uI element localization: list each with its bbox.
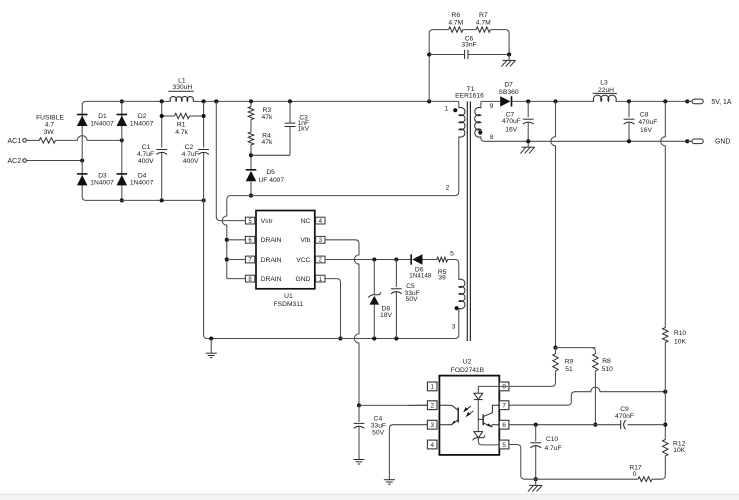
svg-text:AC1: AC1	[7, 138, 21, 145]
fusible resistor FUSIBLE 4.7 3W	[36, 114, 64, 143]
svg-text:8: 8	[502, 384, 506, 391]
svg-text:51: 51	[565, 366, 573, 373]
inductor L1 330uH	[168, 77, 193, 101]
svg-text:16V: 16V	[505, 127, 517, 134]
svg-text:4.7uF: 4.7uF	[137, 151, 154, 158]
svg-text:2: 2	[430, 403, 434, 410]
svg-text:AC2: AC2	[7, 158, 21, 165]
svg-text:400V: 400V	[138, 158, 154, 165]
svg-text:1N4007: 1N4007	[90, 121, 114, 128]
diode D5 UF 4007	[246, 169, 285, 198]
wire AC2	[26, 158, 84, 162]
svg-text:2: 2	[446, 184, 450, 191]
svg-text:U1: U1	[284, 293, 293, 300]
svg-text:D2: D2	[138, 113, 147, 120]
U2 pin 1	[427, 382, 437, 391]
wire U2 pin7 to R10/R12 node, hop over R8	[509, 387, 667, 405]
svg-text:3W: 3W	[44, 129, 55, 136]
svg-text:39: 39	[438, 275, 446, 282]
svg-text:VCC: VCC	[296, 257, 310, 264]
svg-text:1kV: 1kV	[298, 126, 310, 133]
capacitor C9 470nF	[615, 406, 634, 429]
svg-text:C8: C8	[640, 111, 649, 118]
svg-text:4.7k: 4.7k	[175, 129, 188, 136]
svg-text:470uF: 470uF	[638, 119, 657, 126]
svg-text:DRAIN: DRAIN	[261, 237, 282, 244]
svg-text:C9: C9	[620, 406, 629, 413]
resistor R3 47k	[248, 107, 273, 121]
svg-text:9: 9	[490, 103, 494, 110]
svg-text:16V: 16V	[640, 127, 652, 134]
chassis ground on bottom return	[528, 479, 542, 491]
zener diode D8 18V	[368, 260, 392, 339]
U1 pin 7 DRAIN	[245, 256, 281, 264]
op-amp U2 FOD2741B body	[439, 358, 499, 455]
svg-text:5: 5	[502, 442, 506, 449]
capacitor C5 33uF 50V	[391, 260, 420, 339]
svg-text:R9: R9	[565, 358, 574, 365]
svg-text:6: 6	[502, 422, 506, 429]
wire R12 bottom to R17	[652, 456, 665, 479]
chassis ground under C7	[520, 141, 534, 153]
U1 pin 6 DRAIN	[245, 236, 281, 244]
U2 pin 7	[499, 401, 509, 410]
capacitor C3 1nF 1kV	[251, 101, 310, 155]
svg-text:D3: D3	[98, 172, 107, 179]
svg-text:10K: 10K	[674, 339, 686, 346]
svg-text:GND: GND	[296, 276, 311, 283]
resistor R6 4.7M	[433, 12, 464, 32]
wire Vfb node to U2 pin2	[359, 404, 427, 406]
T1 auxiliary winding pin5-pin3	[450, 251, 465, 339]
capacitor C10 4.7uF	[530, 425, 561, 482]
svg-text:4.7uF: 4.7uF	[182, 151, 199, 158]
svg-text:8: 8	[490, 134, 494, 141]
resistor R1 4.7k	[160, 113, 206, 136]
wire main top rail with L1 inline	[86, 99, 459, 103]
wire drain column with hop over Vstr wire	[222, 196, 230, 279]
T1 secondary winding pin9-pin8	[475, 101, 494, 141]
U2 internal transistor	[478, 405, 499, 427]
wire primary ground rail	[207, 336, 455, 340]
U2 internal LED diode	[474, 386, 508, 431]
resistor R9 51	[553, 348, 574, 374]
ground symbol on primary rail	[206, 339, 217, 358]
svg-text:1: 1	[430, 384, 434, 391]
svg-text:EER1616: EER1616	[455, 93, 484, 100]
svg-text:1N4148: 1N4148	[409, 273, 432, 280]
svg-text:DRAIN: DRAIN	[261, 257, 282, 264]
ground under U2 pin3 wire	[384, 480, 395, 485]
svg-text:C2: C2	[185, 144, 194, 151]
svg-text:5V, 1A: 5V, 1A	[711, 99, 731, 106]
resistor R7 4.7M	[463, 12, 505, 32]
U1 pin 5 Vstr	[245, 217, 273, 225]
diode D2 1N4007	[117, 113, 154, 127]
svg-text:1N4007: 1N4007	[90, 180, 114, 187]
resistor R4 47k	[248, 132, 273, 146]
svg-text:R7: R7	[479, 12, 488, 19]
svg-text:U2: U2	[463, 358, 472, 365]
wire VCC pin2 net	[325, 257, 411, 261]
svg-text:4.7M: 4.7M	[476, 20, 491, 27]
wire bridge right column	[120, 99, 124, 202]
svg-text:FUSIBLE: FUSIBLE	[36, 114, 64, 121]
svg-text:400V: 400V	[183, 158, 199, 165]
U1 pin 8 DRAIN	[245, 275, 281, 283]
wire C2 column down to primary ground rail	[204, 200, 208, 338]
svg-text:470nF: 470nF	[615, 413, 634, 420]
svg-text:7: 7	[502, 403, 506, 410]
svg-text:4.7uF: 4.7uF	[544, 445, 561, 452]
wire U2 pin3 to ground	[389, 425, 427, 480]
svg-text:R1: R1	[177, 121, 186, 128]
svg-text:C10: C10	[546, 436, 559, 443]
svg-text:DRAIN: DRAIN	[261, 276, 282, 283]
wire AC1 with hop over left bridge column	[56, 136, 124, 143]
wire bottom return to U2 pin5	[509, 445, 638, 480]
resistor R10 10K	[661, 101, 687, 345]
svg-text:33uF: 33uF	[371, 422, 386, 429]
svg-text:R6: R6	[452, 12, 461, 19]
svg-text:4.7M: 4.7M	[448, 20, 463, 27]
wire U1 GND pin1 to ground rail	[325, 279, 343, 341]
capacitor C4 33uF 50V	[354, 405, 386, 436]
svg-text:1N4007: 1N4007	[130, 180, 154, 187]
svg-text:D5: D5	[266, 169, 275, 176]
capacitor C7 470uF 16V	[502, 101, 534, 141]
svg-text:50V: 50V	[372, 429, 384, 436]
svg-text:33nF: 33nF	[461, 41, 476, 48]
wire snubber right vertical	[505, 30, 511, 57]
svg-text:R10: R10	[674, 330, 687, 337]
svg-text:L3: L3	[600, 80, 608, 87]
diode D4 1N4007	[117, 172, 154, 186]
svg-text:GND: GND	[715, 139, 730, 146]
U2 pin 3	[427, 420, 437, 429]
wire R3/R4 column	[249, 101, 253, 169]
resistor R5 39	[423, 257, 456, 281]
wire snubber left vertical	[427, 30, 433, 102]
svg-text:3: 3	[452, 324, 456, 331]
U2 pin 8	[499, 382, 509, 391]
capacitor C6 33nF	[429, 35, 509, 59]
transformer T1 EER1616 core	[455, 86, 484, 341]
U1 pin 3 Vfb	[300, 236, 325, 244]
svg-text:1: 1	[445, 106, 449, 113]
svg-text:FSDM311: FSDM311	[274, 301, 304, 308]
U2 internal zener reference	[473, 432, 500, 445]
svg-text:C1: C1	[142, 144, 151, 151]
svg-text:0: 0	[633, 471, 637, 478]
U2 pin 2	[427, 401, 437, 410]
wire R10 to R12 column	[663, 343, 667, 440]
wire T1 pin2 to drain column	[231, 195, 455, 197]
capacitor C8 470uF 16V	[624, 101, 658, 141]
U2 internal phototransistor with light arrows	[439, 405, 473, 425]
svg-text:FOD2741B: FOD2741B	[451, 367, 485, 374]
wire secondary GND rail	[484, 139, 691, 143]
resistor R12 10K	[663, 440, 686, 457]
svg-text:Vfb: Vfb	[300, 237, 310, 244]
U2 pin 4	[427, 440, 437, 449]
terminal GND	[687, 139, 730, 146]
resistor R17 0	[629, 465, 652, 482]
resistor R8 510	[592, 348, 614, 374]
svg-text:R8: R8	[602, 358, 611, 365]
decorative bottom strip	[0, 494, 739, 500]
terminal AC1	[7, 138, 26, 145]
wire AC1 to fusible	[26, 139, 39, 141]
terminal AC2	[7, 158, 26, 165]
svg-text:Vstr: Vstr	[261, 218, 274, 225]
svg-text:18V: 18V	[380, 312, 392, 319]
wire drain pins 6,7,8 stubs	[227, 240, 246, 279]
wire Vstr feed from top rail	[216, 101, 245, 220]
svg-text:D7: D7	[504, 82, 513, 89]
wire R8 bottom to pin6 net	[593, 371, 597, 427]
svg-text:UF 4007: UF 4007	[258, 177, 284, 184]
svg-text:4: 4	[430, 442, 434, 449]
U1 pin 2 VCC	[296, 256, 325, 264]
svg-text:10K: 10K	[673, 447, 685, 454]
svg-text:NC: NC	[301, 218, 311, 225]
svg-text:330uH: 330uH	[173, 84, 193, 91]
diode D1 1N4007	[77, 113, 114, 127]
svg-text:47k: 47k	[262, 139, 273, 146]
wire Vfb pin3 down to optocoupler, hops VCC wire and ground rail	[325, 240, 361, 408]
wire U2 pin2 from C4 node	[408, 404, 427, 406]
wire bridge bottom rail	[86, 198, 206, 202]
wire R9 bottom to U2 pin8	[509, 371, 556, 386]
op-amp U1 FSDM311 body	[256, 211, 315, 309]
svg-text:510: 510	[602, 366, 613, 373]
svg-text:470uF: 470uF	[502, 118, 521, 125]
U2 pin 5	[499, 440, 509, 449]
U1 pin 4 NC	[301, 217, 325, 225]
svg-text:3: 3	[430, 422, 434, 429]
wire bridge left column	[82, 101, 86, 200]
ground under C4	[353, 427, 364, 465]
capacitor C1 4.7uF 400V	[137, 101, 167, 200]
terminal 5V 1A	[687, 99, 732, 106]
svg-text:D4: D4	[138, 172, 147, 179]
svg-text:5: 5	[450, 251, 454, 258]
diode D3 1N4007	[77, 172, 114, 186]
wire R9/R8 feed from 5V rail, hop over GND rail	[551, 101, 596, 349]
chassis ground at snubber	[501, 55, 515, 67]
diode D6 1N4148	[409, 254, 432, 279]
svg-text:C5: C5	[406, 283, 415, 290]
T1 primary winding pin1-pin2	[445, 101, 465, 195]
capacitor C2 4.7uF 400V	[182, 101, 209, 200]
U2 pin 6	[499, 420, 509, 429]
svg-text:22uH: 22uH	[598, 87, 614, 94]
svg-text:1N4007: 1N4007	[130, 121, 154, 128]
svg-text:50V: 50V	[406, 296, 418, 303]
svg-text:SB360: SB360	[499, 89, 519, 96]
svg-text:4.7: 4.7	[45, 122, 55, 129]
U1 pin 1 GND	[296, 275, 325, 283]
wire secondary 5V rail	[481, 99, 691, 103]
inductor L3 22uH	[593, 80, 617, 102]
svg-text:D1: D1	[98, 113, 107, 120]
diode D7 SB360	[499, 82, 519, 107]
svg-text:47k: 47k	[262, 114, 273, 121]
wire U2 pin6 net	[509, 423, 665, 427]
